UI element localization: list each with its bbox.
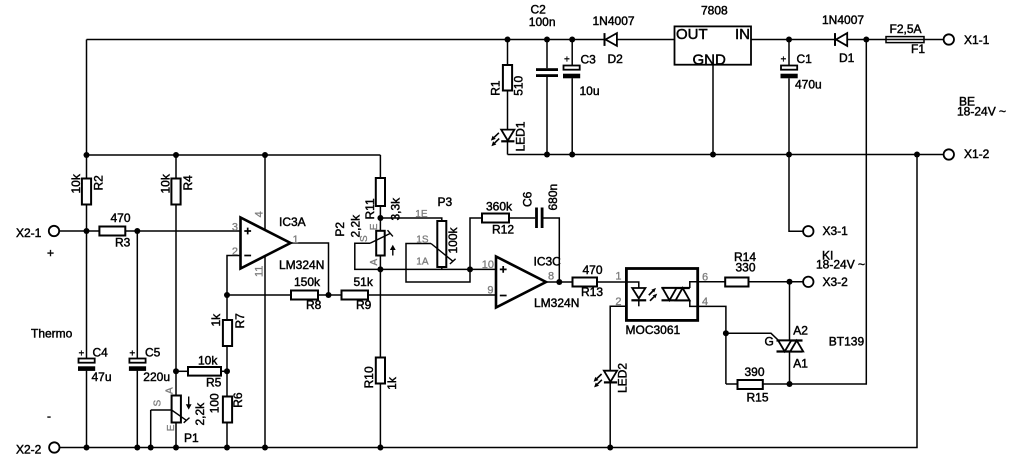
junction ground rail / IC3A pin11 (262, 445, 268, 451)
terminal X2-1 (49, 226, 59, 236)
resistor R7 (223, 320, 232, 346)
wire R5 right lead (221, 370, 227, 372)
junction IC3A out / R8 / R9 (326, 292, 332, 298)
svg-text:D2: D2 (608, 52, 624, 66)
wire C6 to output junction (544, 218, 560, 282)
svg-text:360k: 360k (486, 200, 513, 214)
junction GND rail / right riser (914, 152, 920, 158)
wire R4 to R5 junction and P1 top (175, 205, 177, 396)
svg-text:1: 1 (615, 270, 621, 282)
svg-text:100: 100 (207, 393, 221, 413)
svg-text:E: E (369, 223, 380, 230)
LED2 (604, 371, 617, 382)
wire supply rail to IC3A pin4 and R11 (87, 154, 381, 156)
wire P3 1A to main line (441, 267, 443, 269)
junction ground rail / C5 (134, 445, 140, 451)
svg-text:D1: D1 (839, 51, 855, 65)
svg-text:R6: R6 (231, 392, 245, 408)
terminal X3-2 (803, 277, 813, 287)
svg-text:+: + (129, 349, 135, 360)
svg-text:C3: C3 (581, 53, 597, 67)
wire node A down to R10 (379, 269, 381, 357)
wire left vertical x=86.5 upper (86, 40, 88, 179)
junction ground rail / P1 S (148, 445, 154, 451)
wire C5 to ground rail (136, 371, 138, 448)
svg-text:8: 8 (548, 270, 554, 282)
wire R11/P2 junction to P3 1E (380, 218, 441, 221)
terminal X1-2 (944, 149, 954, 159)
LED1 (501, 130, 514, 141)
svg-text:3,3k: 3,3k (389, 197, 403, 221)
resistor R15 (738, 380, 763, 389)
wire R15 left lead (726, 383, 738, 385)
svg-text:R1: R1 (488, 80, 502, 96)
svg-text:A1: A1 (793, 357, 808, 371)
svg-text:A2: A2 (793, 324, 808, 338)
svg-text:X3-1: X3-1 (823, 224, 849, 238)
wire left vertical x=86.5 lower (C4 to ground rail) (86, 371, 88, 448)
junction top rail / C2 (544, 37, 550, 43)
resistor R1 (503, 65, 512, 91)
svg-text:510: 510 (512, 75, 526, 95)
junction ground rail / LED2 (607, 445, 613, 451)
svg-text:2: 2 (615, 296, 621, 308)
resistor R11 (376, 178, 385, 206)
wire P1 bottom to ground rail (175, 423, 177, 448)
resistor R4 (171, 179, 180, 205)
svg-text:E: E (166, 424, 177, 431)
svg-text:1k: 1k (385, 376, 399, 390)
junction supply rail / R4 (173, 152, 179, 158)
junction R5 / R4 line (173, 368, 179, 374)
wire C1 top lead (788, 40, 790, 66)
svg-text:470u: 470u (795, 78, 822, 92)
wire R14 to X3-2 (749, 281, 804, 283)
junction R5 / R7-R6 line (224, 368, 230, 374)
svg-text:2,2k: 2,2k (193, 402, 207, 426)
resistor R2 (82, 179, 91, 205)
svg-text:IC3C: IC3C (534, 255, 562, 269)
svg-text:LED1: LED1 (514, 121, 528, 151)
wire left vertical x=86.5 middle (86, 205, 88, 359)
junction supply rail / R2 (84, 152, 90, 158)
svg-text:C1: C1 (797, 52, 813, 66)
wire top rail left of D2 (87, 39, 604, 41)
light arrows of MOC3061 (649, 288, 657, 301)
resistor R13 (573, 278, 598, 287)
svg-text:X1-1: X1-1 (964, 33, 990, 47)
svg-text:LM324N: LM324N (534, 296, 579, 310)
wire R13 to MOC3061 pin1 (597, 281, 626, 283)
junction top rail / C3 (569, 37, 575, 43)
capacitor C2 (536, 68, 558, 71)
potentiometer P2 (376, 231, 385, 256)
svg-text:47u: 47u (92, 370, 112, 384)
fuse F1 (886, 37, 924, 43)
svg-text:4: 4 (253, 211, 265, 217)
wire LED2 to ground rail (609, 382, 611, 447)
voltage regulator 7808 (675, 26, 752, 64)
svg-text:A: A (164, 387, 175, 394)
junction top rail / C1 (786, 37, 792, 43)
wire LED1 to GND rail (507, 141, 509, 154)
svg-text:2,2k: 2,2k (349, 214, 363, 238)
junction D1 / F1 / riser (863, 37, 869, 43)
wire GND rail y=154.5 (508, 154, 944, 156)
svg-text:7808: 7808 (701, 4, 728, 18)
svg-text:100k: 100k (446, 226, 460, 253)
capacitor C4 (79, 359, 95, 363)
svg-text:P2: P2 (333, 222, 347, 237)
svg-text:1A: 1A (416, 257, 429, 268)
triac BT139 (777, 341, 803, 352)
internal LED of MOC3061 (626, 282, 638, 288)
wire R7 to R6 segment (226, 346, 228, 397)
op-amp IC3C (496, 257, 546, 308)
svg-text:9: 9 (487, 285, 493, 297)
svg-text:470: 470 (583, 263, 603, 277)
junction GND rail / 7808 GND (710, 152, 716, 158)
wire R3 junction down to C5 (136, 231, 138, 359)
resistor R3 (99, 227, 125, 236)
optocoupler U1 MOC3061 (626, 269, 697, 321)
svg-text:F2,5A: F2,5A (890, 22, 922, 36)
svg-text:IC3A: IC3A (279, 215, 306, 229)
resistor R6 (223, 397, 232, 423)
svg-text:1k: 1k (209, 313, 223, 327)
svg-text:C4: C4 (93, 346, 109, 360)
svg-text:GND: GND (693, 52, 727, 69)
wire triac A1 down (789, 352, 791, 385)
svg-text:C6: C6 (521, 191, 535, 207)
svg-text:+: + (781, 55, 787, 66)
junction ground rail / R6 (224, 445, 230, 451)
svg-text:X1-2: X1-2 (964, 147, 990, 161)
svg-text:BT139: BT139 (829, 335, 865, 349)
wire C2 bottom lead (546, 77, 548, 155)
terminal X3-1 (803, 226, 813, 236)
wire P2 wiper S route (355, 243, 381, 269)
svg-text:+: + (47, 246, 54, 260)
wire R1 top from top rail (507, 40, 509, 66)
svg-text:10k: 10k (69, 173, 83, 193)
svg-text:LED2: LED2 (616, 363, 630, 393)
wire C2 top lead (546, 40, 548, 69)
svg-text:S: S (359, 235, 370, 242)
svg-text:10u: 10u (580, 84, 600, 98)
wire 7808 GND pin (712, 65, 714, 155)
svg-text:R15: R15 (747, 391, 769, 405)
wire R10 to ground rail (379, 384, 381, 448)
capacitor C1 (781, 66, 797, 70)
svg-text:2: 2 (232, 246, 238, 258)
svg-text:11: 11 (253, 266, 265, 277)
internal phototriac of MOC3061 (690, 282, 698, 288)
svg-text:P1: P1 (184, 431, 199, 445)
wire IC3A pin2 stub (227, 256, 241, 321)
wire R12 to C6 (509, 217, 535, 219)
node junction dots (84, 37, 921, 451)
junction X2-1 line / R2 (84, 228, 90, 234)
svg-text:+: + (79, 349, 85, 360)
svg-text:680n: 680n (546, 184, 560, 211)
svg-text:X2-2: X2-2 (16, 443, 42, 457)
svg-text:S: S (153, 400, 164, 407)
svg-text:150k: 150k (294, 275, 321, 289)
svg-text:R11: R11 (363, 198, 377, 219)
diode D2 (604, 33, 606, 46)
svg-text:R7: R7 (233, 313, 247, 329)
svg-text:R3: R3 (115, 236, 131, 250)
svg-text:R5: R5 (206, 376, 222, 390)
junction R14 / X3-2 / A2 (787, 279, 793, 285)
junction GND rail / C2 (544, 152, 550, 158)
svg-text:3: 3 (232, 221, 238, 233)
junction GND rail / C3 (569, 152, 575, 158)
svg-text:51k: 51k (354, 275, 374, 289)
wire triac A2 to X3-2 junction (789, 282, 791, 341)
wire 7808 IN to D1 (751, 39, 834, 41)
diode D1 (834, 33, 836, 46)
wire R9 to IC3C pin9 (368, 294, 496, 296)
potentiometer P1 (172, 396, 181, 423)
wire X3-1 stub from GND rail (789, 155, 803, 232)
junction 1S path / pin10 line (467, 266, 473, 272)
wire node A to IC3C pin10 (380, 268, 496, 270)
wire R11 bottom to P2 top (379, 206, 381, 231)
svg-text:A: A (369, 259, 380, 266)
junction GND rail / C1,X3-1 (786, 152, 792, 158)
svg-text:X2-1: X2-1 (16, 226, 42, 240)
potentiometer P3 (437, 221, 446, 267)
svg-text:Thermo: Thermo (31, 327, 73, 341)
resistor R10 (376, 358, 385, 384)
wire pin2 junction to R8 (227, 294, 291, 296)
wire R6 to ground rail (226, 423, 228, 448)
svg-text:10k: 10k (159, 173, 173, 193)
junction IC3A pin2 / R8 / R7 (224, 292, 230, 298)
wire P2 bottom to node A (379, 256, 381, 270)
svg-text:R8: R8 (306, 298, 322, 312)
svg-text:18-24V ~: 18-24V ~ (816, 257, 865, 271)
wire C1 bottom lead (788, 78, 790, 154)
svg-text:100n: 100n (529, 15, 556, 29)
wire IC3C output to R13 (546, 281, 573, 283)
op-amp IC3A (241, 218, 291, 269)
resistor R5 (188, 367, 221, 376)
resistor R9 (342, 291, 369, 300)
svg-text:1S: 1S (416, 234, 429, 245)
svg-text:X3-2: X3-2 (823, 275, 849, 289)
junction R3 / C5 (134, 228, 140, 234)
svg-text:R4: R4 (181, 175, 195, 191)
wire MOC3061 pin6 to R14 (698, 281, 726, 283)
svg-text:+: + (564, 55, 570, 66)
svg-text:220u: 220u (143, 370, 170, 384)
junction R11 / P2 / 1E (377, 215, 383, 221)
wire R8 to R9 (318, 294, 342, 296)
svg-text:-: - (47, 409, 51, 423)
wire P3 wiper 1S route (406, 244, 470, 283)
resistor R14 (725, 278, 748, 287)
wire D1 to fuse F1 to X1-1 (847, 39, 944, 41)
svg-text:6: 6 (702, 272, 708, 284)
wire R3 to IC3A pin3 (125, 230, 240, 232)
junction supply rail / IC3A pin4 (262, 152, 268, 158)
svg-text:MOC3061: MOC3061 (626, 323, 681, 337)
junction ground rail / P1 E (173, 445, 179, 451)
wire C3 top lead (571, 40, 573, 66)
wire R15 to right riser up to fuse junction (763, 40, 867, 385)
wire ground rail bottom (60, 155, 918, 448)
svg-text:IN: IN (735, 26, 750, 43)
svg-text:OUT: OUT (676, 26, 708, 43)
svg-text:10k: 10k (198, 354, 218, 368)
wire R11 top from supply rail (379, 155, 381, 178)
svg-text:4: 4 (702, 296, 708, 308)
wire C3 bottom lead (571, 78, 573, 154)
wire X2-1 to R3 (59, 230, 99, 232)
node A junction P2/R10 (377, 266, 383, 272)
wire IC3A pin11 to ground rail (264, 256, 266, 448)
junction R15 / A1 (787, 381, 793, 387)
capacitor C5 (129, 359, 145, 363)
svg-text:18-24V ~: 18-24V ~ (957, 105, 1006, 119)
svg-text:1E: 1E (415, 209, 428, 220)
svg-text:10: 10 (482, 259, 494, 271)
capacitor C3 (564, 66, 580, 70)
svg-text:470: 470 (111, 211, 131, 225)
junction ground rail / R10 (377, 445, 383, 451)
svg-text:C5: C5 (145, 346, 161, 360)
svg-text:LM324N: LM324N (279, 258, 324, 272)
wire R4 branch x=176 upper (175, 155, 177, 179)
wire R1 to LED1 (507, 91, 509, 130)
svg-text:330: 330 (736, 261, 756, 275)
svg-text:390: 390 (745, 365, 765, 379)
wire MOC3061 pin2 to LED2 (610, 306, 626, 370)
resistor R8 (291, 291, 318, 300)
terminal X1-1 (944, 34, 954, 44)
junction top rail / R1 (505, 37, 511, 43)
terminal X2-2 (49, 442, 59, 452)
wire IC3A output to R8/R9 junction (291, 243, 329, 295)
svg-text:R2: R2 (92, 175, 106, 191)
wire R5 left lead (176, 370, 188, 372)
resistor R12 (482, 214, 509, 223)
wire D2 to 7808 OUT (617, 39, 675, 41)
wire gate lead to triac (726, 333, 779, 340)
svg-text:R13: R13 (581, 285, 603, 299)
svg-text:1N4007: 1N4007 (822, 13, 864, 27)
svg-text:G: G (765, 334, 774, 348)
wire MOC3061 pin4 down to R15 line (698, 306, 726, 384)
wire IC3A pin4 from supply rail (264, 155, 266, 230)
svg-text:1N4007: 1N4007 (593, 14, 635, 28)
svg-text:F1: F1 (911, 42, 925, 56)
svg-text:R10: R10 (362, 366, 376, 388)
capacitor C6 (535, 208, 538, 229)
svg-text:R12: R12 (492, 223, 514, 237)
wire feedback node up to R12 (470, 218, 482, 269)
junction IC3C out / C6 riser (556, 279, 562, 285)
svg-text:R9: R9 (356, 298, 372, 312)
svg-text:P3: P3 (438, 195, 453, 209)
svg-text:1: 1 (293, 234, 299, 246)
junction MOC pin4 / gate (723, 330, 729, 336)
junction ground rail / C4 (84, 445, 90, 451)
